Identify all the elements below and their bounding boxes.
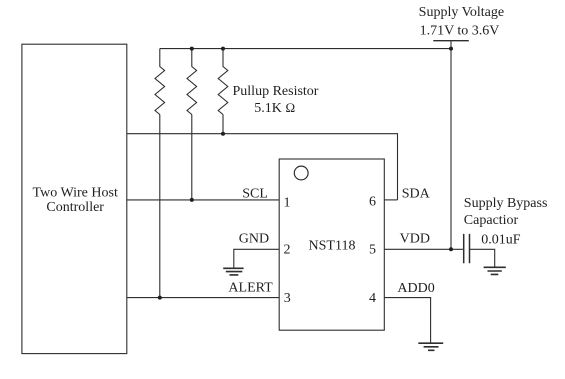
svg-text:1: 1 (284, 196, 291, 211)
ground symbol at ADD0 (418, 343, 443, 350)
wire SDA pin stub (384, 199, 397, 201)
wire R2 bottom lead to SCL net (191, 115, 193, 200)
svg-text:SCL: SCL (242, 187, 268, 202)
node R2 top junction (190, 47, 194, 51)
svg-text:ADD0: ADD0 (397, 281, 434, 296)
ground symbol at capacitor (484, 267, 506, 274)
host controller box U2 (22, 44, 127, 353)
svg-text:0.01uF: 0.01uF (481, 232, 521, 247)
node VDD supply junction (449, 247, 453, 251)
node supply rail junction (449, 47, 453, 51)
wire VDD pin stub (384, 248, 463, 250)
svg-text:Supply Voltage: Supply Voltage (419, 5, 504, 20)
op-amp U1 NST118 body (279, 159, 384, 330)
svg-text:SDA: SDA (402, 187, 431, 202)
svg-text:Two Wire Host: Two Wire Host (33, 186, 118, 201)
svg-text:5.1K Ω: 5.1K Ω (254, 100, 295, 116)
svg-text:Supply Bypass: Supply Bypass (464, 196, 548, 211)
wire supply vertical drop (450, 41, 452, 250)
svg-text:1.71V to 3.6V: 1.71V to 3.6V (420, 24, 500, 39)
svg-text:ALERT: ALERT (228, 281, 273, 296)
wire SDA net from host to pin 6 (127, 134, 398, 200)
svg-text:VDD: VDD (400, 232, 430, 247)
wire SCL net (127, 199, 279, 201)
wire capacitor to ground (470, 249, 495, 267)
svg-text:Pullup Resistor: Pullup Resistor (233, 84, 319, 99)
resistor R3 (218, 49, 228, 115)
ground symbol at GND pin (223, 268, 243, 275)
svg-text:NST118: NST118 (309, 238, 356, 253)
supply voltage rail bar (433, 40, 469, 42)
node R3 top junction (221, 47, 225, 51)
svg-text:4: 4 (369, 291, 376, 306)
svg-text:GND: GND (239, 231, 269, 246)
node R3 bottom junction (221, 132, 225, 136)
svg-text:Controller: Controller (46, 200, 104, 215)
svg-text:6: 6 (369, 194, 376, 209)
svg-text:Capactior: Capactior (464, 213, 519, 228)
node R1 bottom ALERT junction (158, 296, 162, 300)
wire R3 bottom lead (222, 115, 224, 134)
capacitor C1 plates (464, 234, 470, 263)
wire R1 bottom lead to ALERT net (159, 115, 161, 298)
svg-text:2: 2 (284, 242, 291, 257)
svg-text:5: 5 (369, 242, 376, 257)
wire ADD0 pin stub (384, 298, 430, 344)
node R2 bottom SCL junction (190, 198, 194, 202)
wire ALERT net (127, 297, 279, 299)
svg-text:3: 3 (284, 291, 291, 306)
wire GND pin stub (234, 249, 279, 268)
wire top supply rail (160, 48, 451, 50)
resistor R2 (187, 49, 197, 115)
resistor R1 (155, 49, 165, 115)
pin 1 indicator circle (294, 166, 308, 180)
